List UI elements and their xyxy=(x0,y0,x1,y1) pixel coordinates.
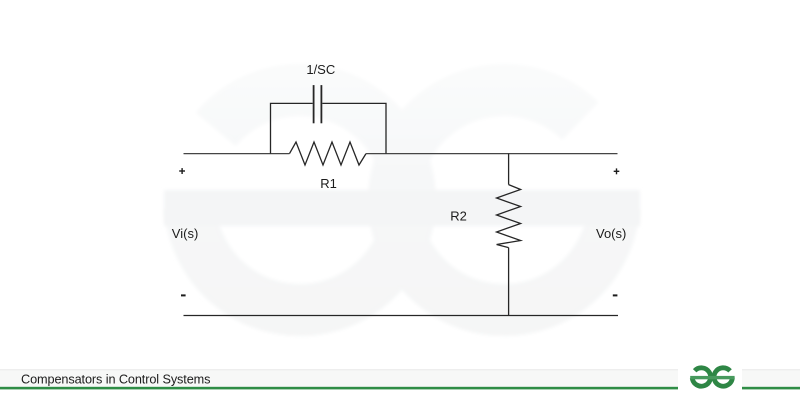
svg-text:R1: R1 xyxy=(320,176,337,191)
svg-text:Vi(s): Vi(s) xyxy=(172,226,198,241)
svg-text:R2: R2 xyxy=(450,208,467,223)
svg-text:Vo(s): Vo(s) xyxy=(596,226,626,241)
svg-text:Compensators in Control System: Compensators in Control Systems xyxy=(21,373,210,387)
svg-text:1/SC: 1/SC xyxy=(306,62,335,77)
